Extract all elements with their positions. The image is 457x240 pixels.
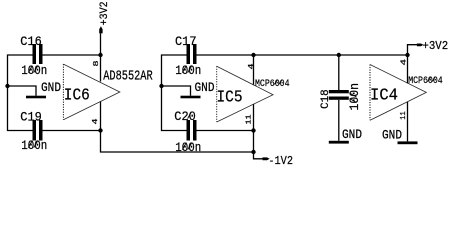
ground symbol middle — [181, 96, 201, 99]
wire GND tap left section — [8, 86, 37, 96]
svg-text:+3V2: +3V2 — [99, 1, 111, 25]
svg-text:100n: 100n — [175, 63, 201, 78]
capacitor C20 — [187, 120, 197, 141]
svg-text:GND: GND — [342, 127, 362, 142]
wire GND tap middle section — [162, 86, 191, 96]
slashed zeros of C18 value — [350, 93, 357, 103]
ground symbol under IC4 — [398, 141, 418, 144]
wire IC4 pin 4 — [407, 55, 409, 83]
svg-text:C16: C16 — [20, 34, 42, 49]
svg-text:GND: GND — [41, 80, 61, 95]
ground symbol under C18 — [329, 141, 349, 144]
wire middle vertical rail with bends to C17 and C20 — [162, 55, 187, 131]
capacitor C19 — [33, 120, 43, 141]
svg-text:100n: 100n — [347, 83, 362, 111]
supply -1V2 arrow — [263, 157, 270, 160]
wire top rail IC5 pin4 to right section — [254, 54, 408, 56]
svg-text:GND: GND — [382, 127, 402, 142]
slashed zeros of C17 value — [182, 66, 192, 73]
capacitor C16 — [33, 44, 43, 64]
ground symbol left — [26, 96, 46, 99]
node junction +3V2 / pin8 — [98, 53, 102, 57]
svg-text:100n: 100n — [175, 140, 201, 155]
svg-text:4: 4 — [92, 118, 100, 125]
svg-text:IC4: IC4 — [370, 86, 398, 105]
wire IC5 pin 4 — [253, 55, 255, 85]
node junction IC5 pin4 — [251, 53, 255, 57]
node junction C18 top — [337, 53, 341, 57]
slashed zeros of IC5 value — [274, 80, 282, 85]
svg-text:C19: C19 — [20, 110, 42, 125]
supply +3V2 left stem — [100, 34, 102, 56]
slashed zeros of C19 value — [28, 141, 38, 148]
supply +3V2 right bend — [408, 45, 418, 55]
wire IC6 pin 4 down to -1V2 run — [101, 102, 254, 153]
wire IC6 pin 8 — [100, 55, 102, 82]
wire IC5 pin 11 down to -1V2 supply — [254, 104, 263, 159]
svg-text:C17: C17 — [175, 34, 197, 49]
wire left vertical rail with top bend to C16 and bottom bend to C19 — [8, 55, 33, 131]
slashed zeros of IC4 value — [428, 77, 436, 82]
slashed zero of C20 name — [188, 112, 192, 119]
node junction +3V2 right / IC4 pin4 — [405, 53, 409, 57]
slashed zeros of C16 value — [28, 66, 38, 73]
svg-text:100n: 100n — [21, 138, 47, 153]
op-amp IC6 (dashed power gate triangle) — [63, 64, 119, 120]
node junction C19 / pin4 — [98, 128, 102, 132]
svg-text:GND: GND — [195, 80, 215, 95]
node junction left GND — [5, 84, 9, 88]
svg-text:11: 11 — [246, 114, 254, 124]
svg-text:IC6: IC6 — [64, 85, 90, 104]
supply +3V2 right arrow — [417, 44, 423, 47]
svg-text:IC5: IC5 — [217, 88, 243, 107]
capacitor C17 — [187, 44, 197, 64]
node junction -1V2 run / pin11 — [251, 150, 255, 154]
wire C18 bottom to ground — [338, 100, 340, 141]
svg-text:4: 4 — [401, 58, 409, 65]
wire C18 top — [338, 55, 340, 90]
slashed zeros of C20 value — [182, 143, 192, 150]
svg-text:MCP6004: MCP6004 — [408, 75, 443, 87]
svg-text:AD8552AR: AD8552AR — [103, 68, 153, 84]
svg-text:-1V2: -1V2 — [268, 154, 293, 168]
node junction middle GND — [159, 84, 163, 88]
svg-text:C20: C20 — [174, 109, 196, 124]
wire C20 right plate to IC5 pin11 junction — [197, 130, 254, 132]
supply +3V2 left arrow — [99, 26, 102, 33]
svg-text:MCP6004: MCP6004 — [255, 78, 290, 90]
wire C17 right plate to IC5 pin4 junction — [197, 54, 254, 56]
svg-text:8: 8 — [93, 60, 101, 67]
capacitor C18 — [329, 90, 349, 100]
svg-text:C18: C18 — [320, 89, 332, 109]
wire C16 right plate to +3V2 junction — [43, 54, 101, 56]
node junction C20 / pin11 — [251, 128, 255, 132]
svg-text:100n: 100n — [21, 63, 47, 78]
svg-text:4: 4 — [248, 63, 256, 70]
svg-text:+3V2: +3V2 — [422, 39, 448, 53]
wire IC4 pin 11 down to ground — [407, 102, 409, 141]
op-amp IC4 (dashed power gate triangle) — [370, 65, 426, 121]
op-amp IC5 (dashed power gate triangle) — [217, 66, 273, 122]
svg-text:11: 11 — [400, 111, 408, 120]
wire C19 right plate to IC6 pin4 junction — [43, 130, 101, 132]
